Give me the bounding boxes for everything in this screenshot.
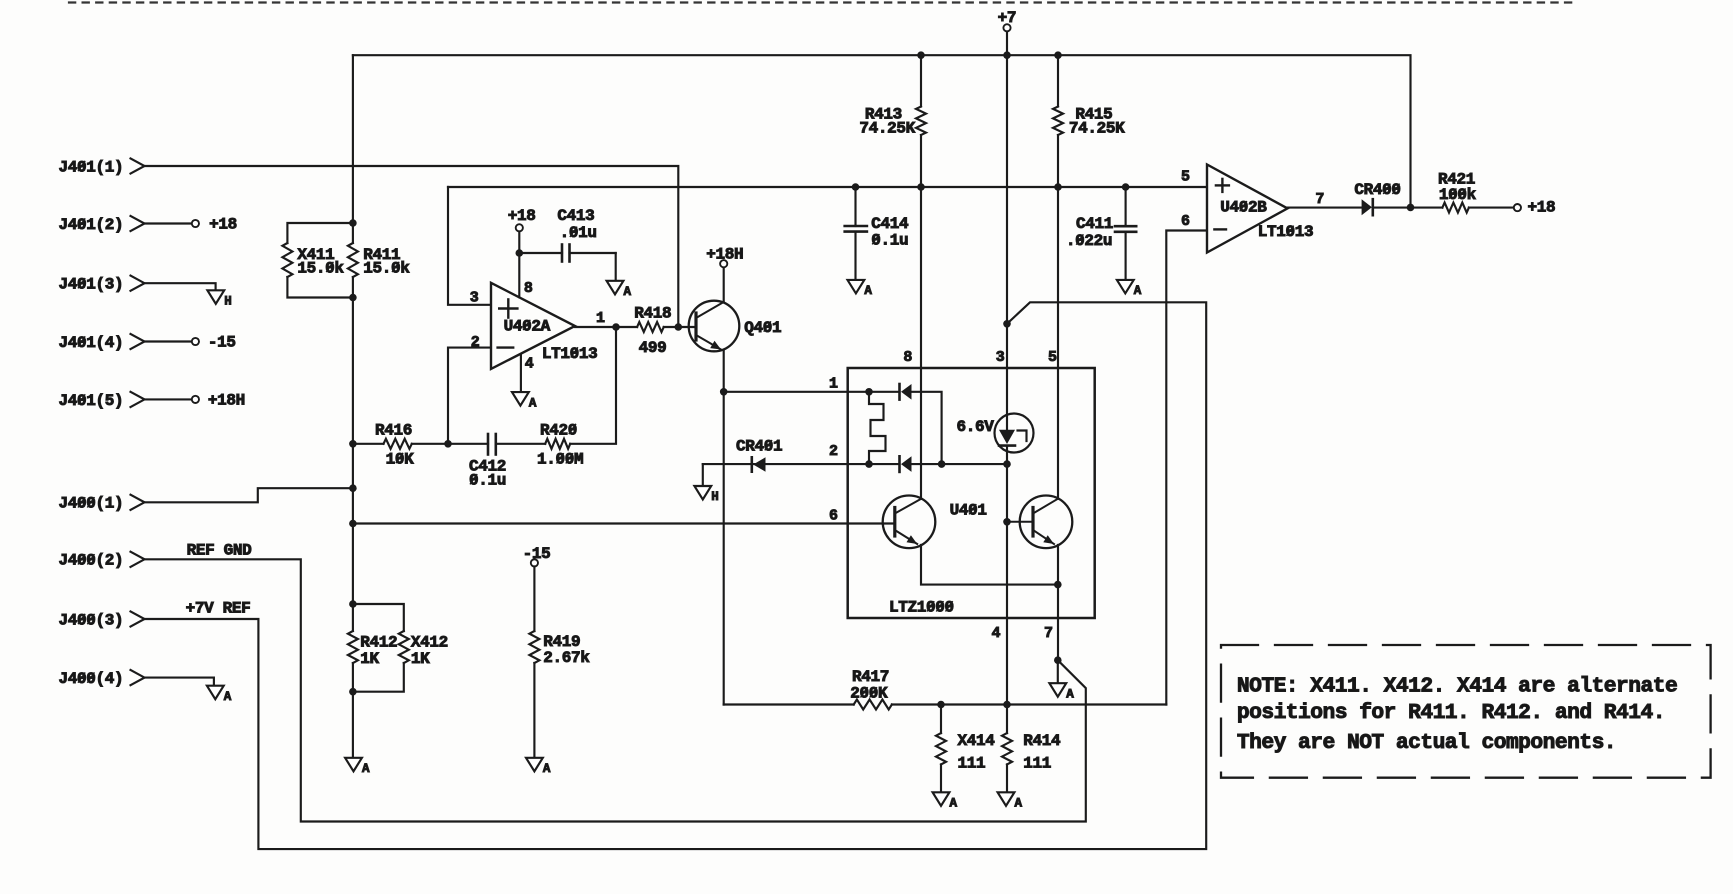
- svg-text:8: 8: [524, 280, 533, 297]
- svg-text:A: A: [543, 762, 551, 776]
- svg-text:positions for R411. R412. and: positions for R411. R412. and R414.: [1237, 701, 1665, 725]
- junction: [1003, 518, 1011, 526]
- junction: [1054, 183, 1062, 191]
- wire REF GND bus: [145, 559, 1086, 821]
- svg-text:H: H: [711, 490, 718, 504]
- wire: [1057, 660, 1059, 683]
- junction: [1054, 51, 1062, 59]
- capacitor C412 0.1u: [448, 434, 545, 490]
- junction: [852, 183, 860, 191]
- svg-text:+18: +18: [209, 216, 237, 234]
- connector J400(2): [59, 552, 145, 570]
- svg-text:A: A: [529, 396, 537, 410]
- junction: [349, 440, 357, 448]
- svg-text:1: 1: [596, 310, 605, 327]
- connector J401(3): [59, 276, 145, 294]
- svg-text:2: 2: [471, 334, 480, 351]
- wire pin 6 (U401 base): [353, 522, 895, 524]
- svg-text:4: 4: [992, 625, 1001, 642]
- svg-text:A: A: [950, 797, 958, 811]
- junction: [1122, 183, 1130, 191]
- connector J400(1): [59, 495, 145, 513]
- wire reference node: [448, 186, 1207, 188]
- wire: [145, 678, 214, 686]
- svg-text:111: 111: [958, 755, 986, 773]
- ground A (R412): [345, 758, 370, 776]
- svg-text:+18: +18: [1528, 199, 1556, 217]
- connector J401(5): [59, 392, 145, 410]
- svg-text:5: 5: [1181, 168, 1190, 185]
- svg-text:U402A: U402A: [504, 317, 551, 335]
- junction: [444, 440, 452, 448]
- terminal +18 (output): [1514, 199, 1555, 217]
- svg-text:.022u: .022u: [1066, 232, 1112, 250]
- resistor R412 1K: [348, 631, 397, 692]
- svg-text:.01u: .01u: [560, 224, 597, 242]
- connector J401(2): [59, 216, 145, 234]
- junction: [1054, 581, 1062, 589]
- heater element (LTZ): [869, 392, 886, 464]
- svg-text:2.67k: 2.67k: [543, 649, 590, 667]
- connector J401(1): [59, 158, 145, 176]
- resistor R420 1.00M: [537, 327, 616, 469]
- wire pin 4 drop: [1006, 446, 1008, 705]
- junction: [1003, 701, 1011, 709]
- connector J401(4): [59, 334, 145, 352]
- svg-text:2: 2: [829, 443, 838, 460]
- ground H: [207, 290, 231, 308]
- junction: [865, 460, 873, 468]
- svg-text:4: 4: [525, 355, 534, 372]
- svg-text:200K: 200K: [850, 685, 888, 703]
- junction: [917, 51, 925, 59]
- junction: [612, 323, 620, 331]
- transistor Q401: [689, 301, 782, 352]
- IC LTZ1000 box: [848, 368, 1095, 618]
- resistor X411 15.0k: [282, 223, 353, 298]
- wire: [352, 692, 354, 758]
- junction: [865, 388, 873, 396]
- svg-text:CR401: CR401: [736, 438, 782, 456]
- svg-text:7: 7: [1315, 191, 1324, 208]
- terminal -15: [192, 334, 236, 352]
- svg-text:+18: +18: [508, 207, 536, 225]
- svg-text:3: 3: [470, 289, 479, 306]
- terminal -15 (R419): [523, 545, 551, 566]
- svg-text:6: 6: [1181, 213, 1190, 230]
- terminal +7: [998, 9, 1017, 31]
- svg-text:5: 5: [1048, 349, 1057, 366]
- junction: [1003, 320, 1011, 328]
- svg-text:10K: 10K: [386, 450, 415, 468]
- svg-text:C413: C413: [557, 207, 594, 225]
- op-amp U402A: [491, 283, 597, 369]
- svg-text:0.1u: 0.1u: [469, 472, 506, 490]
- wire pin 1: [724, 391, 900, 393]
- ground A: [207, 686, 232, 704]
- svg-text:Q401: Q401: [744, 319, 781, 337]
- wire emitter to R417: [724, 703, 854, 705]
- svg-text:100k: 100k: [1439, 186, 1477, 204]
- resistor R414 111: [1002, 705, 1061, 793]
- svg-text:They are NOT actual components: They are NOT actual components.: [1237, 731, 1616, 755]
- junction: [349, 600, 357, 608]
- junction: [1054, 656, 1062, 664]
- svg-text:C411: C411: [1076, 215, 1113, 233]
- diode CR401: [736, 438, 782, 472]
- svg-text:A: A: [1015, 797, 1023, 811]
- svg-text:A: A: [864, 284, 872, 298]
- ground A (R419): [526, 758, 551, 776]
- svg-text:15.0k: 15.0k: [363, 259, 410, 277]
- svg-text:6.6V: 6.6V: [957, 418, 995, 436]
- svg-text:C414: C414: [871, 215, 909, 233]
- svg-text:0.1u: 0.1u: [871, 232, 908, 250]
- svg-text:3: 3: [996, 349, 1005, 366]
- zener 6.6V (LTZ): [957, 324, 1034, 453]
- junction: [1407, 204, 1415, 212]
- svg-text:A: A: [362, 762, 370, 776]
- svg-text:J401(1): J401(1): [59, 158, 124, 176]
- ground A (pin 7): [1049, 683, 1074, 701]
- terminal +18H: [192, 392, 245, 410]
- svg-text:6: 6: [829, 507, 838, 524]
- junction: [937, 701, 945, 709]
- wire emitter / pin 7: [1057, 545, 1059, 660]
- svg-text:-15: -15: [208, 334, 236, 352]
- junction: [349, 219, 357, 227]
- svg-text:REF GND: REF GND: [187, 542, 252, 560]
- wire +7 drop: [1006, 31, 1008, 323]
- ground A (U402A pin 4): [512, 392, 537, 410]
- resistor R417 200K: [850, 668, 1166, 709]
- wire emitter: [921, 545, 1058, 585]
- junction: [349, 520, 357, 528]
- connector J400(3): [59, 611, 145, 629]
- resistor R413 74.25K: [859, 55, 926, 187]
- wire: [145, 283, 216, 290]
- svg-text:+18H: +18H: [208, 392, 245, 410]
- svg-text:R416: R416: [375, 421, 412, 439]
- wire collector: [723, 267, 725, 302]
- wire to ground H: [702, 464, 704, 486]
- svg-text:LTZ1000: LTZ1000: [889, 599, 954, 617]
- capacitor C411 .022u: [1066, 187, 1136, 280]
- diode CR400: [1354, 181, 1400, 215]
- junction: [349, 484, 357, 492]
- svg-text:X412: X412: [411, 633, 448, 651]
- svg-text:J400(3): J400(3): [59, 611, 124, 629]
- junction: [1003, 460, 1011, 468]
- ground A (C414): [848, 280, 873, 298]
- junction: [675, 323, 683, 331]
- svg-text:A: A: [624, 285, 632, 299]
- ground H (CR401): [694, 486, 718, 504]
- resistor R415 74.25K: [1053, 55, 1125, 187]
- wire pin 4: [520, 355, 522, 392]
- wire +7 top rail: [353, 55, 1411, 207]
- ground A (C411): [1117, 280, 1142, 298]
- svg-text:+7V REF: +7V REF: [186, 600, 251, 618]
- capacitor C413 .01u: [519, 207, 615, 281]
- svg-text:1K: 1K: [411, 650, 430, 668]
- svg-text:8: 8: [903, 349, 912, 366]
- wire emitter drop: [723, 351, 725, 705]
- svg-text:X414: X414: [958, 732, 996, 750]
- wire pin 2: [448, 348, 491, 444]
- svg-text:A: A: [1134, 284, 1142, 298]
- ground A (X414): [933, 792, 958, 810]
- resistor R416 10K: [353, 421, 448, 468]
- junction: [938, 460, 946, 468]
- wire: [145, 222, 192, 224]
- svg-text:R412: R412: [360, 633, 397, 651]
- svg-text:U402B: U402B: [1220, 199, 1267, 217]
- svg-text:A: A: [224, 690, 232, 704]
- wire output: [1288, 207, 1362, 209]
- svg-text:LT1013: LT1013: [542, 345, 598, 363]
- wire: [145, 398, 192, 400]
- wire J400(1): [145, 488, 353, 502]
- wire to pin 3: [448, 187, 491, 305]
- diode (LTZ pin 1): [900, 384, 942, 464]
- svg-text:H: H: [224, 295, 231, 309]
- junction: [917, 183, 925, 191]
- svg-text:J401(2): J401(2): [59, 216, 124, 234]
- note box: [1221, 645, 1711, 778]
- svg-text:J401(4): J401(4): [59, 334, 124, 352]
- resistor X414 111: [936, 705, 995, 793]
- wire left rail: [352, 298, 354, 605]
- junction: [349, 688, 357, 696]
- wire output: [575, 326, 637, 328]
- wire J401(1) to Q401 base: [145, 166, 679, 327]
- wire: [1373, 207, 1443, 209]
- junction: [720, 388, 728, 396]
- transistor U401 (left): [883, 496, 987, 549]
- resistor X412 1K: [353, 604, 448, 692]
- svg-text:74.25K: 74.25K: [859, 119, 915, 137]
- svg-text:1: 1: [829, 376, 838, 393]
- wire pin 8 supply: [518, 231, 520, 297]
- svg-text:15.0k: 15.0k: [297, 259, 344, 277]
- wire pin 6: [1166, 231, 1207, 705]
- svg-text:R414: R414: [1023, 732, 1061, 750]
- svg-text:74.25K: 74.25K: [1069, 119, 1125, 137]
- resistor R418 499: [634, 305, 696, 357]
- junction: [349, 294, 357, 302]
- wire: [352, 55, 354, 223]
- svg-text:1K: 1K: [360, 650, 379, 668]
- svg-text:R418: R418: [634, 305, 671, 323]
- terminal +18H (Q401): [706, 246, 743, 268]
- wire: [145, 340, 192, 342]
- svg-text:R417: R417: [852, 668, 889, 686]
- svg-text:CR400: CR400: [1354, 181, 1400, 199]
- svg-text:LT1013: LT1013: [1258, 223, 1314, 241]
- svg-text:U401: U401: [950, 502, 987, 520]
- terminal +18: [192, 216, 237, 234]
- ground A (R414): [998, 792, 1023, 810]
- junction: [516, 249, 524, 257]
- diode (LTZ pin 2): [900, 456, 1008, 472]
- svg-text:499: 499: [639, 339, 667, 357]
- svg-text:J400(2): J400(2): [59, 552, 124, 570]
- svg-text:J400(4): J400(4): [59, 670, 124, 688]
- resistor R421 100k: [1438, 171, 1514, 213]
- ground A (C413): [607, 281, 632, 299]
- capacitor C414 0.1u: [845, 187, 909, 280]
- svg-text:J401(5): J401(5): [59, 392, 124, 410]
- svg-text:A: A: [1066, 687, 1074, 701]
- svg-text:NOTE: X411. X412. X414 are alt: NOTE: X411. X412. X414 are alternate: [1237, 675, 1677, 699]
- wire: [352, 604, 354, 631]
- wire pin 5 drop: [1057, 187, 1059, 499]
- wire pin 8 drop: [920, 187, 922, 499]
- wire +7V REF bus: [145, 302, 1207, 849]
- wire pin 2: [703, 463, 900, 465]
- resistor R411 15.0k: [348, 223, 410, 298]
- svg-text:J400(1): J400(1): [59, 495, 124, 513]
- junction: [1003, 51, 1011, 59]
- connector J400(4): [59, 670, 145, 688]
- transistor U401 (right): [1007, 496, 1072, 549]
- op-amp U402B: [1207, 165, 1313, 253]
- terminal +18 (U402A supply): [508, 207, 536, 232]
- svg-text:111: 111: [1023, 755, 1051, 773]
- svg-text:J401(3): J401(3): [59, 276, 124, 294]
- resistor R419 2.67k: [529, 567, 590, 758]
- svg-text:1.00M: 1.00M: [537, 451, 583, 469]
- svg-text:7: 7: [1044, 625, 1053, 642]
